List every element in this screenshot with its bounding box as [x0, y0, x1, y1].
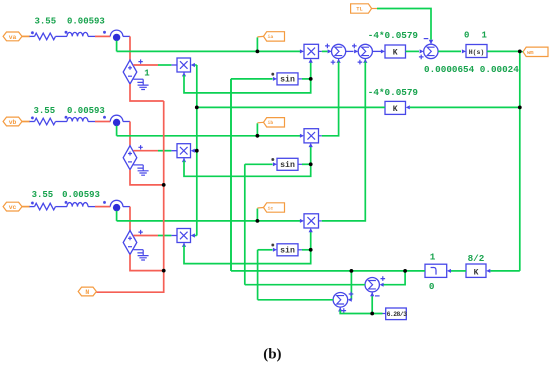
wire Ec control (green): [158, 235, 171, 237]
arrow into K2: [406, 105, 410, 109]
wire ia tag lead green: [256, 37, 258, 51]
arrow into Xa1 right: [191, 63, 195, 67]
Xb1 right input wire: [193, 150, 197, 152]
current sensor Ia dot: [113, 34, 120, 41]
block sina: [277, 73, 298, 85]
wire Rc-Lc: [56, 206, 68, 208]
speed tag wm: [523, 47, 548, 56]
svg-text:ib: ib: [268, 120, 274, 126]
controlled source Ec diamond: [123, 231, 137, 255]
terminal mark sensor c: [103, 201, 106, 204]
Eb minus sign: [128, 161, 132, 163]
svg-text:sin: sin: [280, 160, 295, 170]
current sensor Ia arc: [110, 30, 123, 36]
arrow into S2 bottom: [363, 59, 367, 63]
wire sina out: [302, 78, 311, 80]
svg-text:va: va: [9, 34, 17, 41]
Xa2 glyph: [307, 48, 315, 56]
wire sensor c to corner: [123, 206, 130, 208]
svg-text:sin: sin: [280, 75, 295, 85]
wire theta line: [231, 270, 425, 272]
wire sinb return: [184, 161, 311, 177]
sinb output stub: [298, 163, 302, 165]
svg-text:0: 0: [429, 281, 435, 292]
wire Xa2 to S1: [322, 50, 328, 52]
S3 plus left: [419, 55, 424, 60]
Ea plus sign: [128, 66, 132, 70]
wire ia tag lead orange: [257, 35, 263, 38]
arrow into S1 bottom: [337, 59, 341, 63]
wire Ea control (green): [158, 64, 171, 66]
arrow into Xa2 left: [300, 49, 304, 53]
label tag ia: [264, 32, 285, 41]
arrow into Xb1 right: [191, 149, 195, 153]
Ec minus sign: [128, 246, 132, 248]
ground Ea: [137, 79, 148, 89]
terminal mark resistor Rb: [31, 116, 34, 119]
wire (red) to sensor b: [95, 121, 110, 123]
arrow into Sc bottom: [338, 307, 342, 311]
Sc sigma: [337, 296, 344, 304]
svg-text:0: 0: [464, 30, 469, 40]
Xa1 glyph: [180, 61, 188, 69]
wire sina return: [184, 75, 311, 93]
wire Lb out: [88, 121, 95, 123]
wire 6.28/3 line: [340, 310, 382, 313]
Ec plus sign: [128, 236, 132, 240]
node N-b junction: [162, 183, 166, 187]
svg-text:ia: ia: [268, 34, 274, 40]
Ea control + marker: [138, 59, 142, 63]
Xb1 glyph: [180, 147, 188, 155]
node 6.28/3 junction: [370, 312, 374, 316]
terminal mark resistor Rc: [31, 202, 34, 205]
Eb plus sign: [128, 152, 132, 156]
S2 bottom stub: [364, 59, 366, 62]
wire Ea bottom (red): [130, 84, 164, 101]
node ib junction: [256, 134, 260, 138]
wire thetac into sin: [258, 249, 273, 251]
wire Ra-La: [56, 35, 68, 37]
svg-text:1: 1: [430, 252, 436, 263]
wire Vc lead: [22, 206, 30, 208]
svg-text:3.55: 3.55: [34, 106, 56, 116]
wire Va lead: [22, 35, 30, 37]
node K2 line junction: [195, 106, 199, 110]
svg-text:H(s): H(s): [469, 49, 485, 56]
terminal mark sinc: [271, 244, 274, 247]
wire thetab into sin: [245, 163, 273, 165]
arrow into Sb right: [380, 283, 384, 287]
gain block K1: [385, 45, 406, 58]
svg-text:-4*0.0579: -4*0.0579: [368, 87, 419, 98]
node Xb1 tap junction: [195, 149, 199, 153]
sinc output stub: [298, 249, 302, 251]
svg-text:1: 1: [482, 30, 488, 40]
Ea minus sign: [128, 75, 132, 77]
Xc1 bottom stub: [183, 243, 185, 247]
wire (red) to sensor a: [95, 35, 110, 37]
arrow into K1: [381, 49, 385, 53]
wire sinb to Xb2: [310, 146, 312, 164]
resistor Rc 3.55: [35, 203, 56, 210]
wire TL lead orange: [372, 8, 377, 10]
wire ic tag lead green: [256, 209, 258, 221]
svg-text:K: K: [474, 268, 479, 277]
wire Sc out (theta c): [258, 299, 334, 301]
node ic junction: [256, 219, 260, 223]
svg-text:K: K: [393, 105, 398, 114]
wire H(s) to wm: [487, 50, 520, 52]
ground Ea wire: [133, 78, 143, 80]
wire ib tag lead orange: [257, 121, 263, 124]
arrow into H(s): [462, 49, 466, 53]
arrow into S3 top: [429, 40, 433, 44]
wire (red) down to source Ec: [129, 207, 131, 231]
svg-text:0.0000654 0.00024: 0.0000654 0.00024: [424, 64, 519, 75]
ground Eb: [137, 165, 148, 175]
S3 minus top: [424, 38, 429, 40]
wire (red) to sensor c: [95, 206, 110, 208]
Sc plus right: [349, 292, 354, 297]
S2 plus bottom: [358, 60, 363, 65]
arrow into S3 left: [420, 49, 424, 53]
arrow into Xa1 bottom: [182, 72, 186, 76]
summer Sb: [365, 278, 379, 292]
wire Ea control (red): [133, 64, 158, 66]
Sb minus bottom: [375, 295, 380, 297]
summer Sc: [333, 293, 348, 308]
Sb bottom stub: [371, 292, 373, 295]
node wm junction: [518, 50, 522, 54]
svg-text:TL: TL: [356, 7, 362, 13]
svg-text:vb: vb: [9, 119, 17, 126]
summer S2: [358, 44, 372, 58]
S1 bottom stub: [338, 59, 340, 62]
wire Eb control (red): [133, 150, 158, 152]
wire Ec control (red): [133, 235, 158, 237]
Xc2 output stub: [319, 220, 322, 222]
arrow into sinb: [273, 162, 277, 166]
wire Sb bottom to const line: [371, 295, 373, 313]
arrow into K3: [486, 269, 490, 273]
S2 sigma: [362, 47, 369, 55]
multiplier Xb1 (emf): [177, 144, 191, 158]
svg-text:0.00593: 0.00593: [62, 190, 100, 200]
wire K3 to limiter: [451, 270, 466, 272]
svg-text:1: 1: [144, 68, 150, 78]
svg-text:6.28/3: 6.28/3: [387, 311, 407, 318]
inductor Lb 0.00593: [67, 117, 88, 121]
limiter glyph: [431, 268, 436, 275]
current sensor Ib dot: [113, 119, 120, 126]
wire theta to sin a: [230, 79, 232, 271]
arrow into sina: [273, 77, 277, 81]
wire La out: [88, 35, 95, 37]
inductor Lc 0.00593: [67, 203, 88, 207]
svg-text:vc: vc: [9, 204, 17, 211]
svg-text:K: K: [393, 49, 398, 58]
wire to Ra: [30, 35, 35, 37]
wire S3 to Hs: [438, 50, 461, 52]
Xc1 right input wire: [193, 235, 197, 237]
wire wm to K3: [490, 270, 520, 272]
arrow into Xc1 right: [191, 233, 195, 237]
wire Ec bottom (red): [130, 255, 164, 271]
current sensor Ic dot: [113, 204, 120, 211]
wire thetab vertical: [244, 164, 246, 284]
wire ic tag lead orange: [257, 207, 263, 210]
node sinb out junction: [309, 162, 313, 166]
svg-text:0.00593: 0.00593: [67, 106, 105, 116]
wire S2 to K1: [372, 50, 381, 52]
arrow into sinc: [273, 248, 277, 252]
sina output stub: [298, 78, 302, 80]
svg-text:3.55: 3.55: [32, 190, 54, 200]
Xc1 glyph: [180, 232, 188, 240]
arrow into Xa2 bottom: [309, 59, 313, 63]
wire Xc2 to S2: [322, 62, 366, 221]
gain block K3: [466, 264, 486, 277]
source tag Vb: [3, 117, 22, 126]
Xa2 output stub: [319, 50, 322, 52]
wire thetaa vertical: [230, 79, 232, 271]
svg-text:N: N: [85, 289, 89, 296]
arrow into Xc2 left: [300, 219, 304, 223]
svg-text:sin: sin: [280, 246, 295, 256]
wire Sb out (theta b): [245, 284, 365, 286]
node sina out junction: [309, 77, 313, 81]
Xb2 output stub: [319, 135, 322, 137]
wire sinc out: [302, 249, 311, 251]
source tag Vc: [3, 202, 22, 211]
arrow into Xb2 left: [300, 134, 304, 138]
transfer function H(s): [466, 45, 487, 58]
wire Xb2 to S1: [322, 62, 339, 136]
wire ib line: [117, 135, 301, 137]
multiplier Xc2 (torque): [304, 214, 319, 228]
arrow into Xc2 bottom: [309, 228, 313, 232]
label tag ib: [264, 118, 285, 127]
wire Vb lead: [22, 121, 30, 123]
multiplier Xa1 (emf): [177, 58, 191, 72]
ground Ec: [137, 250, 148, 260]
wire (red) down to source Eb: [129, 122, 131, 146]
wire sensor b to corner: [123, 121, 130, 123]
wire to Rb: [30, 121, 35, 123]
current sensor Ic arc: [110, 200, 123, 206]
current sensor Ib arc: [110, 115, 123, 121]
Xa1 right input wire: [193, 64, 197, 66]
wire thetaa into sin: [231, 78, 273, 80]
stub Xa1 output: [171, 64, 177, 66]
Sb sigma: [369, 281, 376, 289]
node sinc out junction: [309, 248, 313, 252]
multiplier Xa2 (torque): [304, 44, 319, 58]
stub Xc1 output: [171, 235, 177, 237]
node N-c junction: [162, 269, 166, 273]
wire sensor b signal down: [116, 126, 118, 136]
S3 sigma: [427, 47, 434, 55]
wire Lc out: [88, 206, 95, 208]
wire sinc to Xc2: [310, 231, 312, 249]
arrow into Sb bottom: [370, 292, 374, 296]
wire wm lead: [520, 51, 523, 53]
wire to Rc: [30, 206, 35, 208]
wire sinb out: [302, 163, 311, 165]
resistor Ra 3.55: [35, 33, 56, 40]
S1 plus left: [325, 44, 330, 49]
terminal mark inductor La: [65, 31, 68, 34]
ground Ec wire: [133, 249, 143, 251]
controlled source Eb diamond: [123, 146, 137, 170]
resistor Rb 3.55: [35, 118, 56, 125]
svg-text:ic: ic: [268, 205, 274, 211]
terminal mark resistor Ra: [31, 31, 34, 34]
Xb1 bottom stub: [183, 158, 185, 162]
Xa1 bottom stub: [183, 72, 185, 76]
Sc plus bottom: [342, 308, 347, 313]
Eb control + marker: [138, 145, 142, 149]
S2 plus left: [352, 44, 357, 49]
svg-text:0.00593: 0.00593: [67, 16, 105, 26]
terminal mark sinb: [271, 158, 274, 161]
Xc2 glyph: [307, 217, 315, 225]
wire ia line: [117, 50, 301, 52]
wire wm to K2: [410, 106, 520, 108]
wire sina to Xa2: [310, 62, 312, 79]
neutral tag N: [78, 287, 96, 296]
wire thetac vertical: [257, 250, 259, 300]
controlled source Ea diamond: [123, 60, 137, 84]
wire theta to Sc: [350, 271, 352, 300]
wire (red) down to source Ea: [129, 36, 131, 60]
arrow into Xc1 bottom: [182, 243, 186, 247]
inductor La 0.00593: [67, 32, 88, 36]
Sb plus right: [381, 276, 386, 281]
svg-text:-4*0.0579: -4*0.0579: [368, 30, 419, 41]
load torque tag TL: [351, 4, 372, 13]
wire S1 to S2: [346, 50, 354, 52]
arrow into Xb2 bottom: [309, 143, 313, 147]
block sinc: [277, 244, 298, 256]
wire Rb-Lb: [56, 121, 68, 123]
wire wm down: [519, 51, 521, 271]
terminal mark sina: [271, 73, 274, 76]
multiplier Xb2 (torque): [304, 129, 319, 143]
terminal mark sensor a: [103, 31, 106, 34]
limiter block: [425, 264, 447, 277]
arrow into S1 left: [328, 49, 332, 53]
wire K1 to S3: [406, 50, 420, 52]
wire ib tag lead green: [256, 123, 258, 136]
wire TL to S3: [377, 9, 431, 40]
Ec control + marker: [138, 230, 142, 234]
wire theta to Sb: [384, 271, 406, 285]
terminal mark inductor Lb: [65, 116, 68, 119]
wire sinc return: [184, 246, 311, 264]
source tag Va: [3, 32, 22, 41]
Sc bottom stub: [339, 307, 341, 310]
summer S1: [332, 44, 346, 58]
wire Eb control (green): [158, 150, 171, 152]
constant 6.28/3 stub: [383, 313, 386, 315]
S1 plus bottom: [331, 60, 336, 65]
node theta-Sc junction: [350, 269, 354, 273]
svg-text:8/2: 8/2: [468, 253, 485, 264]
summer S3: [424, 44, 438, 58]
ground Eb wire: [133, 164, 143, 166]
svg-text:wm: wm: [527, 50, 534, 56]
wire Eb bottom (red): [130, 170, 164, 185]
S1 sigma: [335, 47, 342, 55]
arrow into Xb1 bottom: [182, 158, 186, 162]
wire sensor a to corner: [123, 35, 130, 37]
wire sensor c signal down: [116, 211, 118, 221]
terminal mark inductor Lc: [65, 201, 68, 204]
node theta-Sb junction: [403, 269, 407, 273]
wire ic line: [117, 220, 301, 222]
Xb2 glyph: [307, 132, 315, 140]
arrow into limiter: [447, 269, 451, 273]
wire wm-gain vertical: [196, 65, 198, 236]
wire sensor a signal down: [116, 41, 118, 52]
wire K2 out: [197, 106, 385, 108]
multiplier Xc1 (emf): [177, 229, 191, 243]
svg-text:(b): (b): [263, 347, 281, 363]
gain block K2: [385, 101, 406, 114]
constant block 6.28/3: [386, 308, 407, 320]
label tag ic: [264, 203, 285, 212]
svg-text:3.55: 3.55: [35, 16, 57, 26]
node wm-K2 junction: [518, 106, 522, 110]
arrow into Sc right: [348, 298, 352, 302]
stub Xb1 output: [171, 150, 177, 152]
arrow into S2 left: [354, 49, 358, 53]
wire N bus (red): [96, 101, 163, 292]
block sinb: [277, 158, 298, 170]
node ia junction: [256, 50, 260, 54]
terminal mark sensor b: [103, 116, 106, 119]
